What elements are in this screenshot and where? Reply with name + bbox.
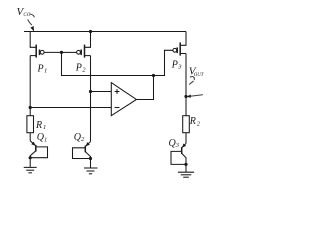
op-amp U1 <box>111 83 136 116</box>
svg-text:R: R <box>189 116 196 127</box>
P3 label <box>171 60 183 71</box>
svg-text:2: 2 <box>81 136 85 143</box>
transistor Q1 <box>30 141 47 158</box>
wire gate feed line <box>62 50 173 75</box>
transistor Q3 <box>171 143 186 164</box>
wire Vcc rail <box>24 31 186 33</box>
node plus-input junction <box>89 90 92 93</box>
Q3 label <box>169 138 180 149</box>
ground GND2 <box>84 168 98 174</box>
svg-text:2: 2 <box>82 67 86 74</box>
wire R1 to Q1 emitter <box>29 133 31 141</box>
R2 label <box>189 116 201 127</box>
svg-text:R: R <box>35 120 42 131</box>
svg-text:3: 3 <box>177 64 182 71</box>
svg-text:P: P <box>75 62 82 73</box>
svg-text:OUT: OUT <box>194 73 204 78</box>
wire P3 drain down to R2 <box>185 54 187 116</box>
resistor R1 <box>27 116 34 133</box>
node Q3 collector-base <box>184 163 187 166</box>
R1 label <box>35 120 46 131</box>
wire P1 gate to node <box>44 51 61 53</box>
junction dot P2 source on rail <box>89 30 92 33</box>
node P1-P2 gates <box>60 51 63 54</box>
wire plus input <box>91 91 112 93</box>
transistor P3 <box>173 32 186 56</box>
transistor P1 <box>30 32 44 58</box>
svg-text:1: 1 <box>44 136 47 143</box>
node Q1 collector-base <box>29 156 32 159</box>
ground GND1 <box>24 167 37 172</box>
wire P2 gate to node <box>62 51 77 53</box>
wire op-amp output <box>136 76 153 100</box>
wire minus input <box>30 107 111 109</box>
wire P2 drain down to Q2 <box>90 56 92 142</box>
Q2 label <box>74 132 85 143</box>
svg-text:CC: CC <box>23 12 30 18</box>
node Q2 collector-base <box>89 157 92 160</box>
wire Q3 to ground <box>185 164 187 172</box>
svg-text:2: 2 <box>197 120 201 127</box>
P1 label <box>37 63 48 74</box>
Vout label <box>189 65 204 78</box>
svg-text:P: P <box>37 63 44 74</box>
Vout dashed arrow <box>190 77 203 97</box>
wire R2 to Q3 emitter <box>185 133 187 144</box>
svg-text:1: 1 <box>44 68 47 75</box>
transistor Q2 <box>73 142 91 159</box>
Q1 label <box>37 132 47 143</box>
ground GND3 <box>178 172 194 177</box>
wire Q2 to ground <box>90 159 92 169</box>
Vcc arrowhead <box>30 26 34 32</box>
Vcc label <box>17 6 31 18</box>
node output junction <box>152 74 155 77</box>
svg-text:3: 3 <box>175 142 180 149</box>
transistor P2 <box>77 32 91 58</box>
P2 label <box>75 62 87 73</box>
node Vout <box>184 95 187 98</box>
svg-text:P: P <box>171 60 178 71</box>
wire P1 drain to R1 <box>29 56 31 116</box>
node A minus-input junction <box>29 106 32 109</box>
svg-text:1: 1 <box>43 124 46 131</box>
Vout arrowhead <box>187 95 191 98</box>
Vcc dashed arrow <box>28 14 34 25</box>
resistor R2 <box>183 116 190 133</box>
wire Q1 to ground <box>29 158 31 168</box>
